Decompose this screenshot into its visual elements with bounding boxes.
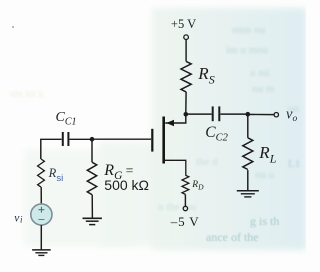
- capacitor CC2: [213, 106, 220, 121]
- +5 V supply label: [171, 17, 196, 31]
- node source (junction of RS, source lead, CC2): [184, 112, 189, 117]
- wire source node to CC2: [186, 113, 212, 115]
- svg-text:+5 V: +5 V: [171, 17, 196, 31]
- wire RL to ground: [247, 170, 249, 191]
- svg-text:RD: RD: [191, 180, 204, 192]
- -5 V supply label: [170, 214, 200, 229]
- wire RS to source node: [185, 92, 187, 114]
- drain lead wire (channel right then down): [165, 160, 186, 175]
- transistor M1 p-channel MOSFET: channel bar: [162, 117, 165, 164]
- wire CC1 to gate node: [70, 138, 93, 140]
- svg-text:the d: the d: [196, 156, 218, 168]
- input corner wire to CC1: [41, 139, 62, 159]
- svg-text:ance of the: ance of the: [206, 230, 259, 244]
- label CC2: [205, 124, 228, 144]
- svg-text:R: R: [48, 166, 57, 180]
- wire vi to ground: [40, 225, 42, 250]
- svg-text:L1: L1: [288, 158, 300, 170]
- voltage source vi: [31, 204, 52, 225]
- svg-text:nu u: nu u: [255, 169, 275, 181]
- label CC1: [56, 110, 77, 128]
- wire +5V terminal to RS: [185, 40, 187, 62]
- svg-text:im u mnu: im u mnu: [226, 44, 269, 56]
- label RS: [197, 64, 214, 87]
- svg-text:u mi: u mi: [250, 67, 270, 79]
- -5 V supply terminal: [183, 206, 187, 210]
- node output (junction CC2, RL, vo): [246, 112, 251, 117]
- ground (RG): [83, 218, 102, 224]
- resistor Rsi: [38, 159, 45, 187]
- gate wire to transistor: [92, 138, 151, 140]
- svg-text:500 kΩ: 500 kΩ: [104, 177, 149, 193]
- label RG = 500 kOhm: [103, 162, 149, 193]
- svg-text:g is th: g is th: [250, 214, 279, 228]
- svg-text:n the mu: n the mu: [158, 201, 197, 213]
- wire output node to vo terminal: [248, 113, 274, 115]
- wire RD to -5V terminal: [184, 194, 186, 206]
- resistor RD: [182, 175, 189, 194]
- svg-text:–5 V: –5 V: [170, 214, 200, 229]
- output terminal vo: [274, 113, 278, 117]
- wire gate node down to RG: [91, 139, 93, 162]
- label RD: [191, 180, 204, 192]
- resistor RS: [181, 61, 191, 91]
- label Rsi: [48, 166, 64, 184]
- resistor RL: [243, 138, 253, 170]
- svg-text:si: si: [56, 173, 63, 184]
- resistor RG: [87, 162, 96, 194]
- svg-text:nm im u: nm im u: [10, 89, 43, 100]
- wire output node down to RL: [247, 114, 249, 138]
- svg-text:nu m: nu m: [252, 83, 275, 95]
- svg-text:vi: vi: [14, 212, 23, 224]
- label vi: [14, 212, 23, 224]
- wire CC2 to output node: [220, 113, 247, 115]
- source lead wire (node down and left into channel): [165, 114, 186, 123]
- source arrow (points into channel): [166, 120, 174, 126]
- wire Rsi to vi source: [40, 187, 42, 204]
- +5 V supply terminal: [184, 35, 189, 40]
- ground (vi): [32, 250, 51, 256]
- label vo: [286, 106, 297, 124]
- ground (RL): [237, 191, 259, 197]
- svg-text:mun nu: mun nu: [232, 24, 266, 36]
- label RL: [258, 143, 276, 165]
- node gate (junction CC1, RG, gate): [90, 137, 95, 142]
- transistor M1 gate plate: [151, 129, 153, 152]
- capacitor CC1: [63, 132, 69, 146]
- wire RG to ground: [91, 195, 93, 219]
